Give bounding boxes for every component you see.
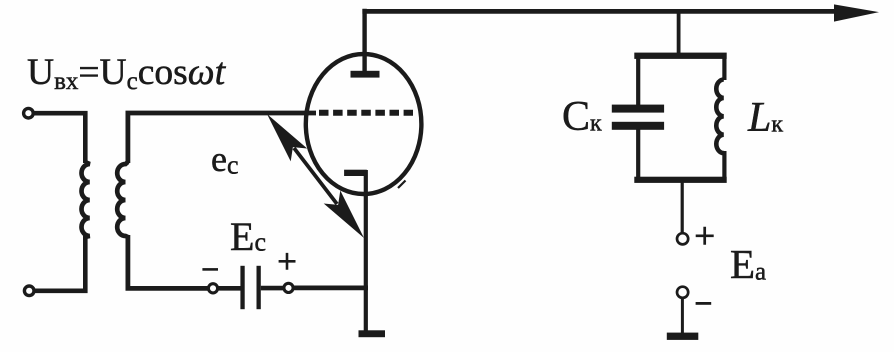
arrowhead of anode rail <box>834 4 879 21</box>
input terminal (bottom) <box>24 286 34 296</box>
pen tick on envelope bottom-right <box>398 181 406 189</box>
node: Ec left terminal <box>208 284 217 293</box>
ground (cathode) <box>359 330 386 337</box>
wire: tank left branch upper <box>636 57 640 105</box>
wire: anode rail (top) <box>362 9 840 14</box>
anode plate <box>351 71 380 78</box>
label + (Ea) <box>696 227 714 245</box>
tank bottom bar <box>634 177 726 183</box>
grid (dashed) <box>319 110 413 116</box>
wire: secondary top to grid <box>128 113 316 163</box>
wire <box>261 286 284 291</box>
capacitor Cк bottom plate <box>612 122 664 130</box>
wire: rail to tank <box>677 11 681 55</box>
battery Ec left plate <box>240 266 244 309</box>
wire: Ec to cathode line <box>293 285 368 290</box>
wire: tank right branch lower <box>722 151 726 178</box>
tank top bar <box>634 53 726 59</box>
transformer primary winding <box>82 162 90 237</box>
wire: cathode lead <box>364 170 368 334</box>
wire <box>218 286 241 291</box>
transformer secondary winding <box>117 162 128 237</box>
terminal + of Ea <box>677 233 688 244</box>
wire: tank to +terminal of Ea <box>681 181 684 233</box>
input terminal (top) <box>24 108 34 118</box>
wire: tank left branch lower <box>636 129 640 178</box>
capacitor Cк top plate <box>612 105 664 113</box>
tube envelope U1 <box>306 54 422 194</box>
cathode bar <box>344 170 367 176</box>
wire: tank right branch upper <box>722 57 726 80</box>
ground (Ea) <box>667 333 699 340</box>
label + (Ec) <box>279 253 296 270</box>
terminal − of Ea <box>677 287 688 298</box>
battery Ec right plate <box>257 266 261 309</box>
wire: top input lead <box>34 113 86 163</box>
inductor Lк <box>716 80 724 154</box>
wire: secondary bottom to Ec <box>128 235 208 288</box>
node: Ec right terminal <box>284 283 293 292</box>
wire: − terminal to ground <box>681 298 684 334</box>
arrow ec (double-headed) <box>294 148 337 204</box>
wire: bottom input lead <box>34 235 85 291</box>
label − (Ec) <box>202 268 218 271</box>
label − (Ea) <box>696 302 712 305</box>
wire: anode lead <box>362 9 366 73</box>
